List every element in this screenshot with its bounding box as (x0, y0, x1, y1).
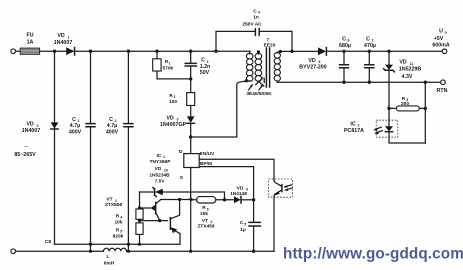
transformer T EE20 (245, 38, 282, 97)
optocoupler phototransistor (PC817A) (269, 179, 293, 251)
node drain junction (189, 135, 192, 138)
primary winding B (255, 53, 262, 59)
svg-text:ZTX458: ZTX458 (197, 224, 214, 230)
diode VD1 1N4007 (54, 33, 75, 55)
svg-text:VD: VD (399, 60, 407, 66)
svg-text:R: R (402, 96, 406, 102)
svg-text:2: 2 (174, 95, 176, 99)
optocoupler LED (PC817A) (344, 120, 425, 143)
capacitor C7 470u (364, 36, 376, 84)
diode VD9 1N4148 (230, 185, 254, 203)
resistor R6 15k (191, 197, 234, 230)
svg-text:C: C (201, 58, 205, 64)
svg-text:250V AC: 250V AC (242, 21, 262, 27)
polarity arrow 2 (259, 85, 263, 90)
svg-text:3: 3 (177, 118, 179, 122)
svg-text:VT: VT (106, 197, 112, 203)
svg-text:7.5V: 7.5V (155, 178, 166, 184)
svg-text:1N4007: 1N4007 (22, 128, 41, 134)
svg-text:RTN: RTN (437, 88, 448, 94)
svg-text:2: 2 (358, 124, 360, 128)
node dot R1 branch (155, 50, 158, 53)
svg-text:+5V: +5V (434, 36, 444, 42)
node R1/C3 bottom (189, 77, 192, 80)
svg-text:FU: FU (26, 33, 33, 39)
svg-text:6mH: 6mH (104, 261, 115, 267)
wire source line (55, 243, 181, 245)
svg-text:EN/UV: EN/UV (200, 151, 215, 157)
wire VD2 vertical (54, 51, 56, 244)
svg-text:820k: 820k (113, 234, 124, 240)
svg-text:4: 4 (120, 216, 122, 220)
svg-text:VD: VD (166, 115, 174, 121)
diode VD2 1N4007 (22, 122, 59, 134)
node dot C1 branch (89, 50, 92, 53)
svg-text:400V: 400V (106, 130, 119, 136)
svg-text:VD: VD (237, 185, 244, 191)
secondary winding (274, 53, 280, 59)
svg-text:680µ: 680µ (339, 43, 351, 49)
resistor R1 570k (153, 51, 191, 79)
svg-text:ZTX558: ZTX558 (105, 202, 122, 208)
svg-text:C: C (366, 36, 370, 42)
svg-text:1: 1 (163, 155, 165, 159)
core (266, 48, 269, 87)
wire C2 vertical (127, 51, 129, 251)
svg-text:U: U (439, 29, 443, 35)
resistor R3 200 + opto LED loop (387, 82, 427, 143)
svg-text:50V: 50V (200, 70, 210, 76)
node dots bottom rail (89, 250, 92, 253)
svg-text:10: 10 (164, 168, 168, 172)
capacitor C2 4.7u 400V (106, 117, 133, 136)
polarity arrow 1 (249, 85, 253, 90)
svg-text:IC: IC (157, 153, 162, 159)
svg-text:TNY266P: TNY266P (150, 159, 172, 165)
RTN terminal (424, 80, 448, 94)
node dot C3 branch (189, 50, 192, 53)
svg-text:3E40/50/6K: 3E40/50/6K (246, 91, 272, 97)
svg-text:L: L (107, 254, 110, 260)
svg-text:1: 1 (169, 61, 171, 65)
svg-text:C: C (72, 117, 76, 123)
AC input label (14, 144, 36, 158)
svg-text:9: 9 (246, 188, 248, 192)
capacitor C3 1.2n 50V (185, 51, 210, 92)
svg-text:85~265V: 85~265V (14, 152, 36, 158)
svg-text:6: 6 (207, 207, 209, 211)
svg-text:1N5234B: 1N5234B (149, 172, 170, 178)
secondary top wire (281, 50, 319, 52)
transistor VT1 ZTX558 (105, 197, 161, 221)
input terminal top (11, 49, 16, 54)
resistor R4 10k (114, 209, 143, 225)
wire C1 vertical (90, 51, 92, 251)
capacitor C5 1u (240, 200, 261, 251)
secondary return wire (277, 81, 440, 83)
svg-text:1N5229B: 1N5229B (399, 66, 422, 72)
svg-text:5: 5 (244, 222, 246, 226)
wire VT supply node (139, 192, 141, 209)
svg-text:600mA: 600mA (432, 42, 450, 48)
svg-text:C: C (253, 8, 257, 14)
svg-text:1N4148: 1N4148 (230, 191, 247, 197)
svg-text:200: 200 (401, 101, 409, 107)
zener VD11 1N5229B 4.3V (384, 50, 422, 106)
wire top rail (16, 50, 251, 52)
svg-text:570k: 570k (163, 66, 174, 72)
wire VT1 collector line (161, 199, 191, 201)
svg-text:100: 100 (169, 99, 177, 105)
wire S pin down (190, 168, 192, 252)
svg-text:400V: 400V (69, 130, 82, 136)
wire drain to transformer (191, 81, 246, 137)
svg-text:BP/M: BP/M (200, 161, 212, 167)
svg-text:R: R (202, 205, 206, 211)
resistor R2 100 (169, 93, 195, 106)
svg-text:4.7µ: 4.7µ (70, 123, 80, 129)
primary winding A (246, 53, 253, 59)
svg-text:http://www.go-gddq.com: http://www.go-gddq.com (283, 246, 463, 263)
svg-text:D: D (179, 149, 183, 155)
svg-text:470µ: 470µ (364, 43, 376, 49)
svg-text:~: ~ (24, 144, 28, 151)
winding B bottom lead (256, 78, 264, 86)
capacitor C6 680u (339, 36, 351, 84)
wire VT1 base / VT2 base (140, 220, 168, 222)
svg-text:15k: 15k (200, 211, 208, 217)
svg-text:C: C (342, 36, 346, 42)
svg-text:1: 1 (115, 199, 117, 203)
wire BP/M down (199, 167, 253, 200)
capacitor C4 1n 250VAC loop (216, 8, 292, 51)
svg-text:VT: VT (202, 218, 208, 224)
node dot C4 branch (214, 50, 217, 53)
svg-text:IC: IC (350, 121, 355, 127)
svg-text:1: 1 (68, 35, 70, 39)
svg-text:1n: 1n (253, 15, 259, 21)
svg-text:11: 11 (410, 62, 414, 66)
node dot VD2 branch (53, 50, 56, 53)
svg-text:4: 4 (258, 11, 260, 15)
svg-text:1N4007: 1N4007 (54, 40, 73, 46)
svg-text:6: 6 (319, 60, 321, 64)
output terminal +5V (432, 29, 450, 54)
zener VD10 7.5V (140, 188, 225, 200)
svg-text:VD: VD (57, 33, 65, 39)
capacitor C1 4.7u 400V (69, 117, 95, 136)
svg-text:1A: 1A (27, 39, 34, 45)
wire bottom rail (16, 250, 275, 252)
svg-text:4.3V: 4.3V (402, 74, 413, 80)
svg-text:VD: VD (155, 166, 162, 172)
svg-text:4.7µ: 4.7µ (107, 123, 117, 129)
svg-text:C: C (240, 220, 244, 226)
input terminal bottom (11, 249, 16, 254)
svg-text:10k: 10k (114, 219, 122, 225)
svg-text:PC817A: PC817A (344, 128, 364, 134)
svg-text:R: R (116, 213, 120, 219)
svg-text:VD: VD (26, 122, 34, 128)
svg-text:VD: VD (308, 58, 316, 64)
svg-text:1N4007GP: 1N4007GP (160, 122, 187, 128)
node dot C2 branch (127, 50, 130, 53)
transistor VT2 ZTX458 (170, 200, 180, 245)
svg-text:R: R (116, 227, 120, 233)
svg-text:C: C (109, 117, 113, 123)
svg-text:1µ: 1µ (240, 227, 246, 233)
IC1 TNY266P (149, 149, 215, 185)
inductor L (103, 248, 126, 266)
svg-text:BYV27-200: BYV27-200 (299, 64, 326, 70)
diode VD3 1N4007GP (160, 106, 195, 154)
svg-text:C8: C8 (45, 239, 51, 245)
svg-text:2: 2 (211, 220, 213, 224)
resistor R5 820k (113, 219, 143, 244)
fuse FU (20, 33, 39, 55)
primary A bottom dot (245, 79, 248, 82)
diode VD6 BYV27-200 (299, 47, 444, 70)
svg-text:5: 5 (120, 230, 122, 234)
wire EN/UV to opto (199, 159, 274, 180)
svg-text:1.2n: 1.2n (200, 64, 211, 70)
